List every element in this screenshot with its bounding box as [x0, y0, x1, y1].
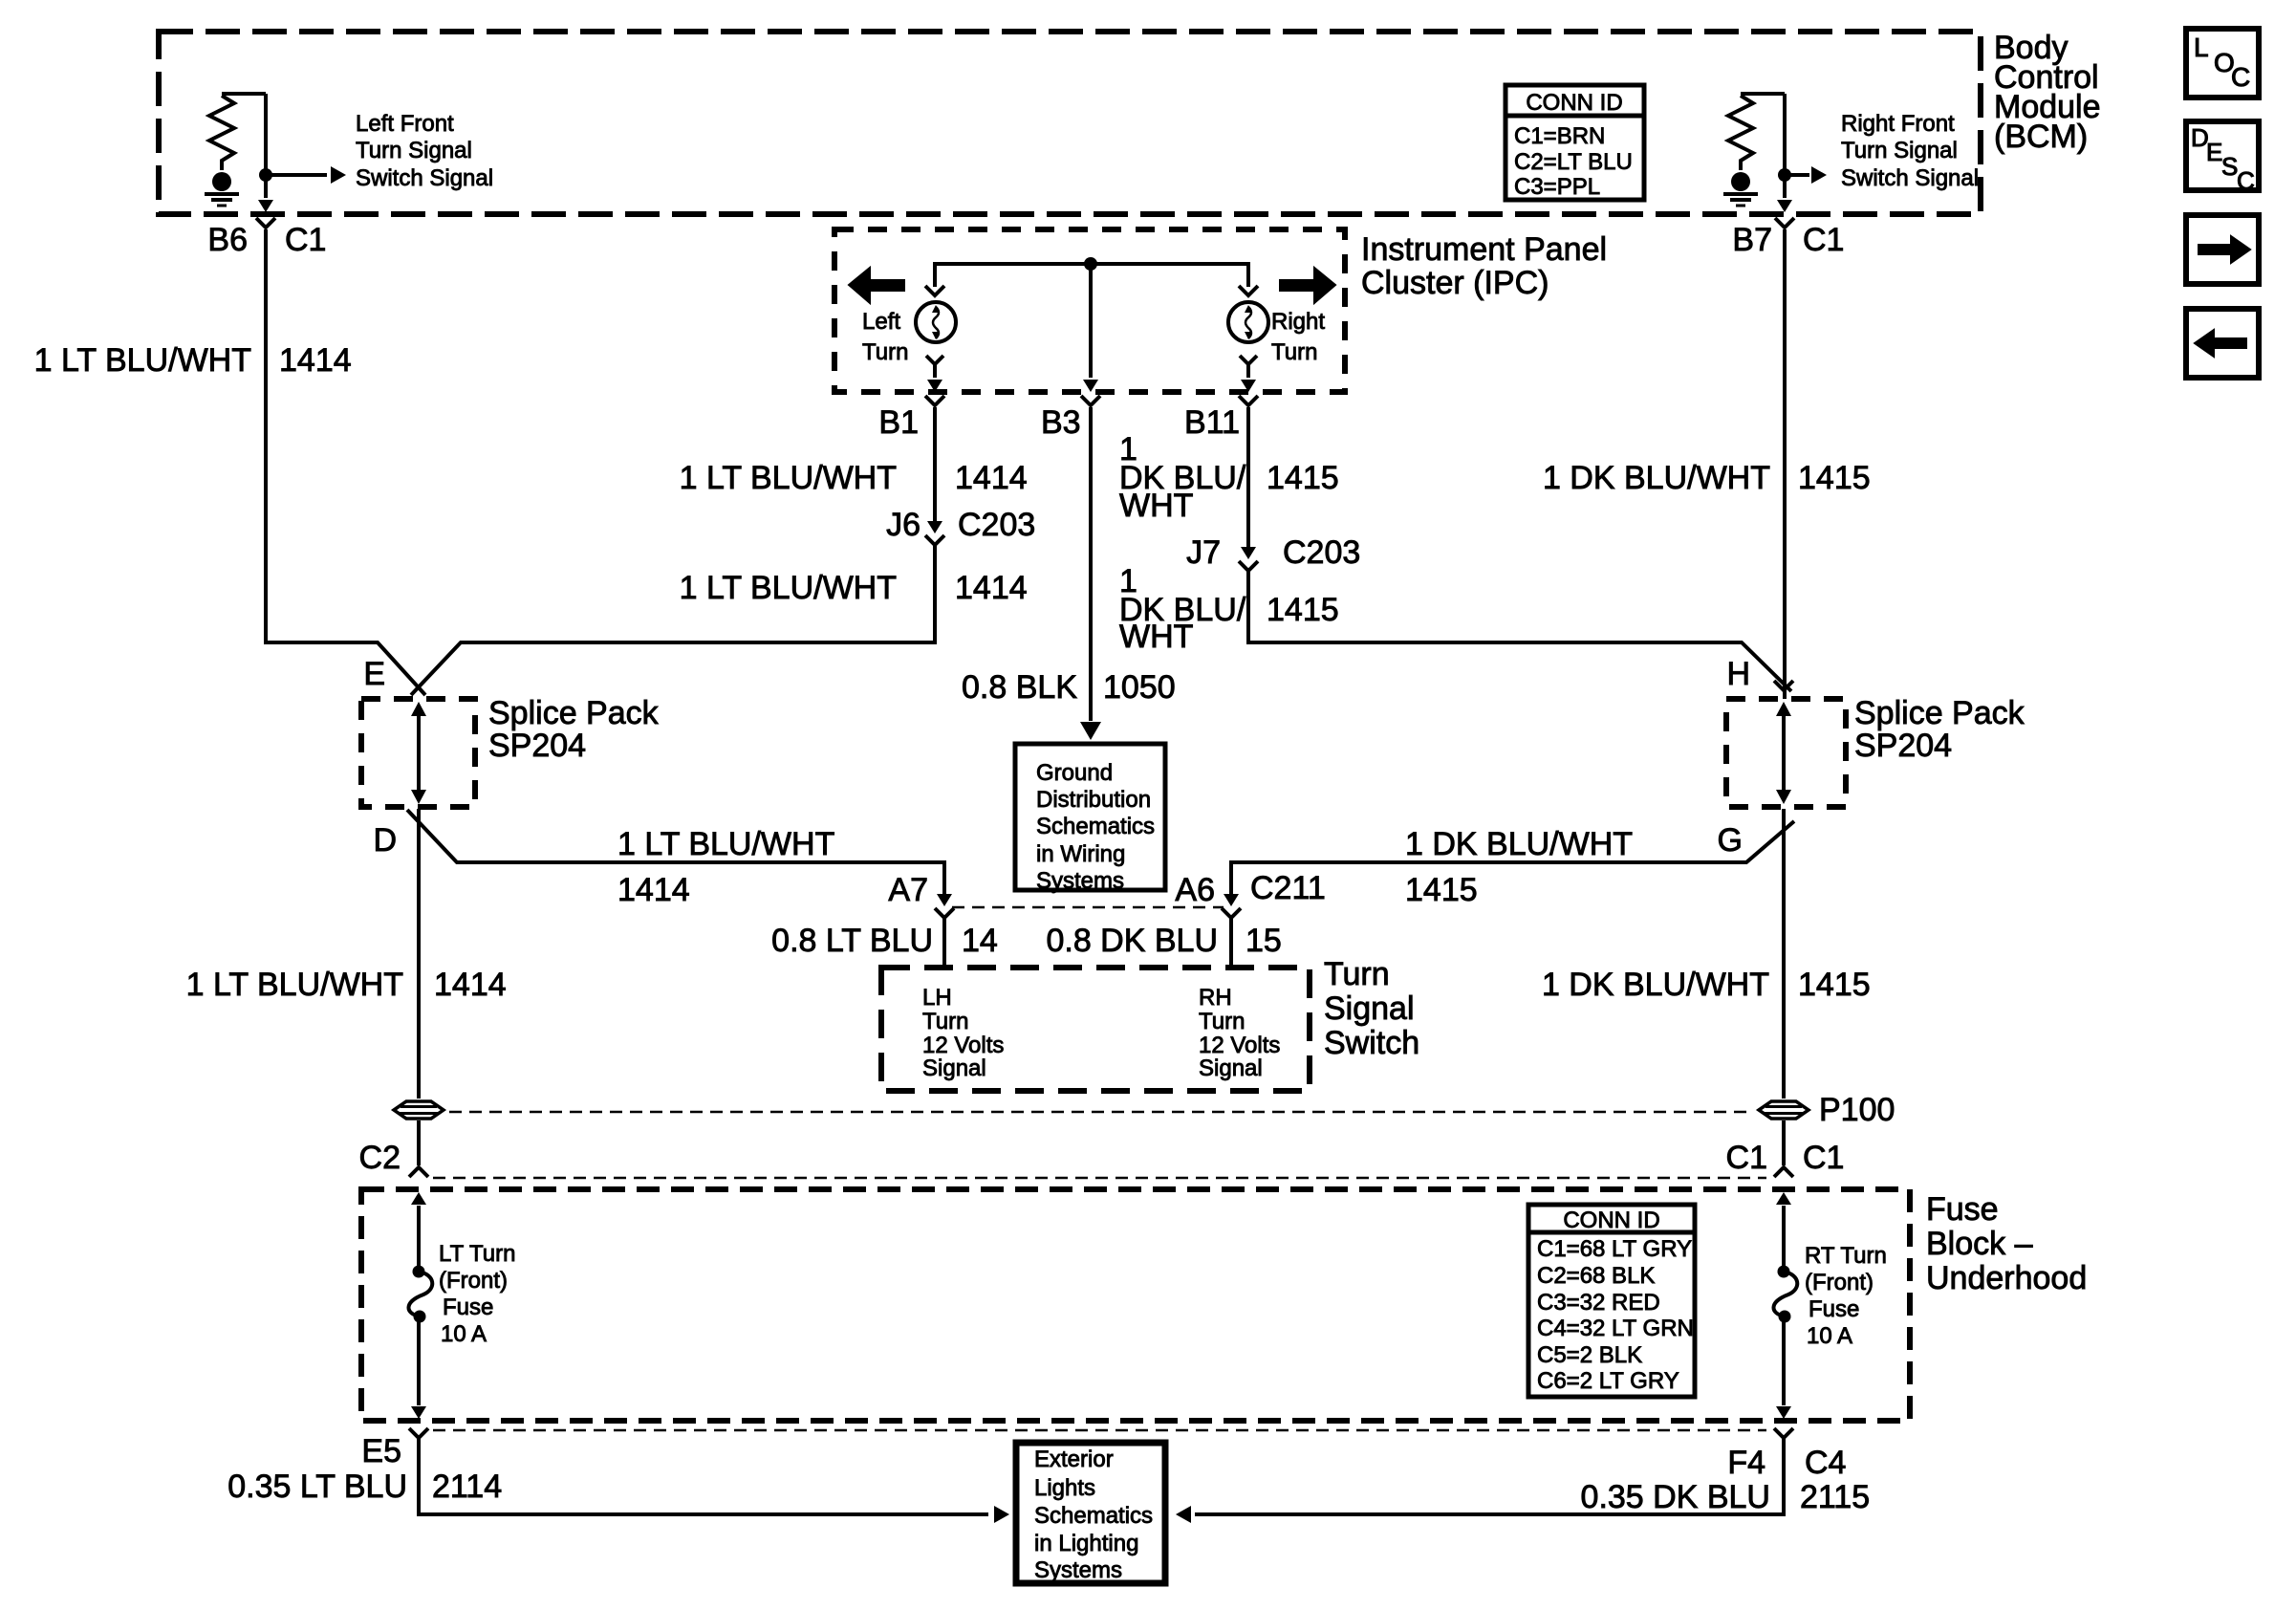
svg-text:1414: 1414 [434, 967, 507, 1003]
connector line P100 (thin dashed) [449, 1111, 1753, 1114]
svg-text:SP204: SP204 [1854, 728, 1952, 764]
svg-text:WHT: WHT [1119, 488, 1193, 524]
svg-text:A7: A7 [888, 872, 928, 908]
ground (right) [1723, 172, 1758, 206]
label: Left Front Turn Signal Switch Signal [356, 111, 493, 191]
resistor (right front turn signal pull-up) [1728, 94, 1785, 170]
svg-text:S: S [2221, 152, 2238, 181]
IPC label [1361, 231, 1607, 301]
sidebar right-arrow box [2186, 215, 2259, 284]
Instrument Panel Cluster (IPC) dashed box [834, 229, 1345, 392]
wire 1415: B7 down to H [1783, 229, 1787, 699]
svg-text:1414: 1414 [279, 342, 352, 379]
label: LH Turn 12 Volts Signal [922, 985, 1004, 1081]
svg-text:1415: 1415 [1267, 460, 1339, 496]
label: Splice Pack SP204 (right) [1854, 695, 2025, 764]
wire: G down to P100 (right) [1782, 809, 1786, 1099]
label: 0.8 LT BLU 14 [771, 923, 998, 959]
svg-text:C4=32 LT GRN: C4=32 LT GRN [1537, 1316, 1694, 1341]
svg-text:in Lighting: in Lighting [1034, 1531, 1138, 1556]
svg-text:Block –: Block – [1926, 1226, 2033, 1262]
wire 2114: E5 to exterior lights [419, 1438, 1009, 1523]
node: IPC bus junction dot [1084, 257, 1097, 271]
svg-text:2114: 2114 [432, 1469, 502, 1505]
svg-text:Fuse: Fuse [1809, 1296, 1859, 1322]
svg-text:WHT: WHT [1119, 619, 1193, 655]
svg-text:L: L [2194, 33, 2209, 62]
svg-text:Schematics: Schematics [1034, 1503, 1153, 1529]
svg-text:H: H [1726, 656, 1750, 692]
svg-text:E5: E5 [361, 1433, 401, 1469]
svg-text:C203: C203 [958, 507, 1035, 543]
svg-text:C4: C4 [1805, 1445, 1846, 1481]
ground (left) [205, 172, 239, 206]
svg-text:J7: J7 [1186, 534, 1221, 571]
label: Splice Pack SP204 (left) [488, 695, 660, 764]
svg-text:C3=PPL: C3=PPL [1514, 174, 1600, 200]
svg-text:CONN ID: CONN ID [1563, 1207, 1659, 1233]
svg-text:Cluster (IPC): Cluster (IPC) [1361, 265, 1549, 301]
label: RT Turn (Front) Fuse 10 A [1805, 1243, 1887, 1349]
svg-text:Fuse: Fuse [1926, 1191, 1999, 1228]
svg-text:Right: Right [1271, 309, 1325, 335]
svg-text:12 Volts: 12 Volts [1199, 1033, 1280, 1058]
sidebar LOC box [2186, 29, 2259, 98]
BCM label [1994, 30, 2101, 155]
svg-text:1050: 1050 [1103, 669, 1176, 706]
svg-text:Systems: Systems [1034, 1557, 1122, 1583]
connector pin B3 [1041, 396, 1100, 441]
connector line E5/F4 (thin dashed) [433, 1429, 1766, 1432]
svg-text:Turn: Turn [1324, 956, 1390, 992]
splice SP204 right internal wire [1776, 702, 1791, 804]
fuse: RT Turn (Front) Fuse 10 A [1778, 1266, 1790, 1278]
svg-text:0.8 BLK: 0.8 BLK [962, 669, 1077, 706]
wire branch: G to A6 [1231, 821, 1794, 899]
wire: D down to P100 (left) [417, 809, 421, 1099]
svg-text:1414: 1414 [955, 570, 1028, 606]
svg-text:14: 14 [962, 923, 998, 959]
node: left junction dot [259, 168, 272, 182]
svg-text:F4: F4 [1727, 1445, 1765, 1481]
svg-text:Signal: Signal [1324, 990, 1415, 1027]
svg-text:Instrument Panel: Instrument Panel [1361, 231, 1607, 268]
svg-text:C2=68 BLK: C2=68 BLK [1537, 1263, 1655, 1289]
wire: left BCM internal drop to B6 [258, 94, 273, 212]
svg-text:0.35 LT BLU: 0.35 LT BLU [227, 1469, 407, 1505]
svg-text:RH: RH [1199, 985, 1232, 1011]
svg-text:0.8 DK BLU: 0.8 DK BLU [1046, 923, 1218, 959]
connector J7 / C203 [1186, 534, 1360, 571]
svg-text:D: D [373, 822, 397, 859]
label: 1 DK BLU/WHT 1415 (B11 lower) [1119, 563, 1339, 655]
wire 2115: F4 to exterior lights [1176, 1438, 1784, 1523]
Splice Pack SP204 (right) dashed box [1726, 699, 1846, 807]
wire 1414: B6 down to E [266, 229, 425, 695]
label: 1 LT BLU/WHT 1414 (B1 lower) [680, 570, 1028, 606]
left turn arrow icon [849, 268, 904, 303]
svg-text:Lights: Lights [1034, 1475, 1095, 1501]
label: Right Front Turn Signal Switch Signal [1841, 111, 1979, 191]
svg-text:C1=68 LT GRY: C1=68 LT GRY [1537, 1236, 1692, 1262]
connector pin C2 (fuse block left) [359, 1140, 428, 1177]
CONN ID table (fuse block) [1528, 1205, 1695, 1397]
svg-text:Turn Signal: Turn Signal [356, 138, 472, 163]
svg-text:1 LT BLU/WHT: 1 LT BLU/WHT [186, 967, 403, 1003]
svg-text:1 DK BLU/WHT: 1 DK BLU/WHT [1543, 460, 1770, 496]
svg-text:C1: C1 [1803, 222, 1844, 258]
lamp: Left Turn indicator [916, 286, 956, 364]
connector pin F4 / C4 [1727, 1428, 1846, 1481]
node E (splice crossing) [363, 656, 385, 692]
splice SP204 left internal wire [411, 702, 426, 804]
lamp: Right Turn indicator [1228, 286, 1268, 364]
label: 1 LT BLU/WHT 1414 (left mid) [186, 967, 507, 1003]
label: RH Turn 12 Volts Signal [1199, 985, 1280, 1081]
svg-text:P100: P100 [1819, 1092, 1895, 1128]
svg-text:10 A: 10 A [441, 1321, 487, 1347]
label: LT Turn (Front) Fuse 10 A [439, 1241, 515, 1347]
connector P100 (right grommet) [1759, 1101, 1809, 1119]
label: 1 DK BLU/WHT 1415 (right mid) [1542, 967, 1871, 1003]
wire 1414: B1 to J6 [933, 407, 937, 522]
svg-text:B1: B1 [878, 404, 919, 441]
svg-text:C: C [2237, 166, 2255, 195]
wire: C2 into LT Turn fuse [411, 1192, 426, 1267]
wire branch: D to A7 [407, 810, 944, 899]
svg-text:Right Front: Right Front [1841, 111, 1955, 137]
sidebar DESC box [2186, 121, 2259, 195]
wire: left lamp to B1 [927, 364, 942, 392]
label: 1 LT BLU/WHT 1414 (diagonal branch) [617, 826, 834, 908]
svg-text:(BCM): (BCM) [1994, 119, 2088, 155]
svg-text:Signal: Signal [922, 1055, 986, 1081]
svg-text:1 DK BLU/WHT: 1 DK BLU/WHT [1405, 826, 1633, 862]
svg-text:0.8 LT BLU: 0.8 LT BLU [771, 923, 933, 959]
wire: bus to B3 [1083, 264, 1098, 392]
svg-text:15: 15 [1245, 923, 1282, 959]
svg-text:Fuse: Fuse [443, 1295, 493, 1320]
label: 0.8 BLK 1050 [962, 669, 1176, 706]
wire 1415: B11 to J7 [1246, 407, 1250, 548]
right turn arrow icon [1280, 268, 1335, 303]
svg-text:C1: C1 [285, 222, 326, 258]
svg-text:1414: 1414 [617, 872, 690, 908]
svg-text:B7: B7 [1732, 222, 1772, 258]
svg-text:1 LT BLU/WHT: 1 LT BLU/WHT [34, 342, 251, 379]
svg-text:(Front): (Front) [1805, 1270, 1874, 1295]
wire: P100 to C2 [417, 1120, 421, 1165]
svg-text:1415: 1415 [1798, 460, 1871, 496]
svg-text:J6: J6 [886, 507, 921, 543]
svg-text:in Wiring: in Wiring [1036, 841, 1125, 867]
svg-text:Systems: Systems [1036, 868, 1124, 894]
sidebar left-arrow box [2186, 309, 2259, 378]
svg-text:Switch Signal: Switch Signal [356, 165, 493, 191]
wire: LT fuse to E5 [411, 1319, 426, 1419]
svg-text:12 Volts: 12 Volts [922, 1033, 1004, 1058]
svg-text:LT Turn: LT Turn [439, 1241, 515, 1267]
Splice Pack SP204 (left) dashed box [361, 699, 475, 807]
svg-text:LH: LH [922, 985, 952, 1011]
svg-text:1 LT BLU/WHT: 1 LT BLU/WHT [680, 460, 897, 496]
svg-text:Exterior: Exterior [1034, 1447, 1114, 1472]
connector pin B11 [1184, 396, 1258, 441]
svg-text:C3=32 RED: C3=32 RED [1537, 1290, 1660, 1316]
signal arrow: Right Front Turn Signal Switch Signal [1785, 166, 1827, 184]
Fuse Block - Underhood dashed box [361, 1189, 1910, 1421]
svg-text:Turn: Turn [862, 339, 908, 365]
svg-text:1 LT BLU/WHT: 1 LT BLU/WHT [680, 570, 897, 606]
label: 1 DK BLU/WHT 1415 (B11 upper) [1119, 431, 1339, 524]
connector line C2/C1 (thin dashed) [433, 1177, 1766, 1180]
connector A7 / C211 [888, 872, 954, 918]
svg-text:C203: C203 [1283, 534, 1360, 571]
svg-text:Turn: Turn [1199, 1009, 1245, 1034]
Exterior Lights Schematics box [1016, 1443, 1165, 1583]
svg-text:C: C [2231, 62, 2250, 92]
connector J6 / C203 [886, 507, 1035, 545]
svg-text:1414: 1414 [955, 460, 1028, 496]
svg-text:Turn: Turn [922, 1009, 968, 1034]
svg-text:Ground: Ground [1036, 760, 1113, 786]
svg-text:B11: B11 [1184, 404, 1240, 441]
node D (splice exit crossing) [373, 822, 397, 859]
wire: P100 to C1 [1782, 1120, 1786, 1165]
wire: A6 into switch [1229, 916, 1233, 968]
svg-text:2115: 2115 [1800, 1479, 1870, 1515]
wire: right lamp to B11 [1241, 364, 1256, 392]
wire: C1 into RT Turn fuse [1776, 1192, 1791, 1267]
svg-text:C1=BRN: C1=BRN [1514, 123, 1605, 149]
node H (splice crossing) [1726, 656, 1793, 692]
svg-text:Signal: Signal [1199, 1055, 1263, 1081]
wire: right BCM internal drop to B7 [1777, 94, 1792, 212]
svg-text:A6: A6 [1175, 872, 1215, 908]
label: 1 LT BLU/WHT 1414 (left outer) [34, 342, 352, 379]
svg-text:C2=LT BLU: C2=LT BLU [1514, 149, 1633, 175]
svg-text:E: E [363, 656, 385, 692]
svg-text:CONN ID: CONN ID [1526, 90, 1622, 116]
connector pin B6 / C1 (BCM) [207, 218, 326, 258]
wire 1050: B3 to ground schematics [1080, 407, 1101, 740]
svg-text:1415: 1415 [1405, 872, 1478, 908]
Ground Distribution Schematics box [1015, 744, 1165, 894]
label: 1 LT BLU/WHT 1414 (B1 upper) [680, 460, 1028, 496]
connector line C211 (thin dashed) [952, 906, 1224, 909]
svg-text:Left Front: Left Front [356, 111, 454, 137]
svg-text:10 A: 10 A [1807, 1323, 1852, 1349]
connector A6 / C211 [1175, 870, 1325, 918]
node G (splice exit crossing) [1718, 822, 1743, 859]
Body Control Module (BCM) dashed box [159, 32, 1981, 214]
wire 1414: J6 down to E branch [411, 543, 935, 695]
node: right junction dot [1778, 168, 1791, 182]
svg-text:C211: C211 [1250, 870, 1326, 906]
svg-text:SP204: SP204 [488, 728, 586, 764]
svg-text:G: G [1718, 822, 1743, 859]
label: Left Turn [862, 309, 908, 365]
CONN ID table (BCM C1/C2/C3) [1505, 85, 1644, 200]
wire 1415: J7 down to H branch [1248, 569, 1791, 691]
svg-text:C1: C1 [1803, 1140, 1844, 1176]
svg-text:RT Turn: RT Turn [1805, 1243, 1887, 1269]
svg-text:1415: 1415 [1267, 592, 1339, 628]
svg-text:Turn Signal: Turn Signal [1841, 138, 1958, 163]
svg-text:C6=2 LT GRY: C6=2 LT GRY [1537, 1368, 1679, 1394]
label: Turn Signal Switch [1324, 956, 1419, 1061]
svg-text:(Front): (Front) [439, 1268, 508, 1294]
label: 1 DK BLU/WHT 1415 (diagonal branch) [1405, 826, 1633, 908]
connector pin B7 / C1 (BCM) [1732, 218, 1844, 258]
connector P100 (left grommet) [394, 1101, 444, 1119]
svg-text:C5=2 BLK: C5=2 BLK [1537, 1342, 1642, 1368]
label: Fuse Block - Underhood [1926, 1191, 2087, 1296]
svg-text:Schematics: Schematics [1036, 814, 1155, 839]
Turn Signal Switch dashed box [881, 968, 1310, 1091]
svg-text:Turn: Turn [1271, 339, 1317, 365]
svg-text:Splice Pack: Splice Pack [1854, 695, 2025, 731]
svg-text:C1: C1 [1726, 1140, 1767, 1176]
svg-text:Distribution: Distribution [1036, 787, 1151, 813]
svg-text:1 LT BLU/WHT: 1 LT BLU/WHT [617, 826, 834, 862]
svg-text:B3: B3 [1041, 404, 1081, 441]
wire: A7 into switch [942, 916, 946, 968]
svg-text:1415: 1415 [1798, 967, 1871, 1003]
svg-text:C2: C2 [359, 1140, 401, 1176]
svg-text:Switch Signal: Switch Signal [1841, 165, 1979, 191]
svg-text:1 DK BLU/WHT: 1 DK BLU/WHT [1542, 967, 1769, 1003]
svg-text:Splice Pack: Splice Pack [488, 695, 660, 731]
connector pin B1 [878, 396, 944, 441]
label: 1 DK BLU/WHT 1415 (right outer) [1543, 460, 1871, 496]
svg-text:0.35 DK BLU: 0.35 DK BLU [1581, 1479, 1770, 1515]
wire: IPC internal bus [935, 264, 1248, 287]
svg-text:E: E [2206, 138, 2222, 166]
connector pin C1 / C1 (fuse block right) [1726, 1140, 1845, 1177]
label: Right Turn [1271, 309, 1325, 365]
label: 0.8 DK BLU 15 [1046, 923, 1281, 959]
wire: RT fuse to F4 [1776, 1319, 1791, 1419]
label: 0.35 DK BLU 2115 [1581, 1479, 1871, 1515]
resistor (left front turn signal pull-up) [209, 94, 266, 170]
svg-text:Left: Left [862, 309, 900, 335]
connector pin E5 [361, 1428, 428, 1469]
svg-text:B6: B6 [207, 222, 248, 258]
signal arrow: Left Front Turn Signal Switch Signal [266, 166, 346, 184]
svg-text:Switch: Switch [1324, 1025, 1419, 1061]
svg-text:Underhood: Underhood [1926, 1260, 2087, 1296]
label: 0.35 LT BLU 2114 [227, 1469, 502, 1505]
fuse: LT Turn (Front) Fuse 10 A [413, 1266, 425, 1278]
